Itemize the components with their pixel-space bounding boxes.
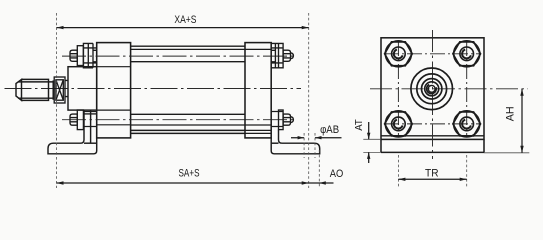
foot leg top edge line bbox=[381, 135, 484, 137]
piston rod threaded stub bbox=[16, 79, 53, 100]
front (left) cap bbox=[97, 43, 131, 138]
bottom tie rod bbox=[131, 114, 245, 125]
cylinder barrel bbox=[131, 46, 245, 133]
svg-text:φAB: φAB bbox=[320, 124, 339, 136]
rod bore lines through front cap bbox=[97, 67, 131, 125]
top tie rod centerline bbox=[62, 55, 297, 57]
right foot hole edge extension lines bbox=[303, 133, 305, 158]
dimension SA+S and AO bbox=[57, 181, 334, 184]
bolt column centerlines bbox=[397, 41, 399, 136]
AT extension lines bbox=[363, 138, 381, 140]
horizontal axis centerline bbox=[370, 88, 528, 90]
rod wrench flats (X-box) bbox=[54, 77, 68, 103]
bottom tie rod centerline bbox=[62, 119, 297, 121]
svg-text:AT: AT bbox=[354, 119, 365, 131]
foot plate bottom bbox=[381, 151, 484, 153]
tie rod nut, end view bottom-left bbox=[385, 111, 413, 137]
dimension phi AB leader bbox=[291, 136, 342, 139]
svg-text:SA+S: SA+S bbox=[179, 168, 200, 180]
left foot hole centerline / dimension extension line bbox=[56, 13, 58, 188]
top tie rod bbox=[131, 49, 245, 61]
svg-text:AO: AO bbox=[330, 168, 344, 180]
vertical centerline bbox=[432, 30, 434, 159]
right foot bracket bbox=[271, 130, 320, 154]
tie rod nut, top-left bbox=[70, 43, 97, 67]
bolt row centerlines bbox=[384, 53, 481, 55]
dimension XA+S bbox=[57, 26, 309, 29]
AH extension line (mounting surface) bbox=[484, 152, 529, 154]
dimension TR bbox=[397, 155, 399, 187]
tie rod nut, bottom-left bbox=[70, 110, 97, 130]
plate side edges extended to foot bottom bbox=[380, 139, 382, 152]
svg-text:AH: AH bbox=[504, 106, 516, 121]
square cap plate bbox=[381, 38, 484, 140]
tie rod nut, end view top-right bbox=[453, 41, 481, 67]
rod gland boss bbox=[68, 67, 97, 110]
tie rod nut, top-right bbox=[271, 43, 293, 67]
tie rod nut, end view top-left bbox=[385, 41, 413, 67]
center rod boss circles bbox=[411, 68, 453, 110]
dimension AT bbox=[367, 122, 370, 163]
dimension AH bbox=[520, 89, 523, 153]
left foot bracket bbox=[48, 110, 97, 154]
tie rod nut, end view bottom-right bbox=[453, 111, 481, 137]
tie rod nut, bottom-right bbox=[271, 110, 293, 130]
right foot toe extension line bbox=[318, 150, 320, 188]
rear (right) cap bbox=[245, 43, 271, 138]
svg-text:XA+S: XA+S bbox=[174, 14, 196, 26]
right foot hole centerline / dimension extension line bbox=[308, 13, 310, 188]
axis centerline bbox=[5, 88, 302, 90]
svg-text:TR: TR bbox=[425, 168, 439, 180]
tie rod lines through rear cap bbox=[245, 49, 271, 133]
